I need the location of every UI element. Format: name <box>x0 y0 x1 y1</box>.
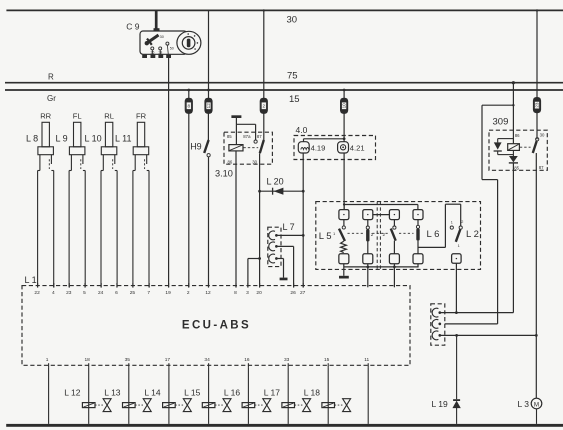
relay 309 coil <box>508 144 520 151</box>
valve L14 solenoid <box>144 367 191 424</box>
svg-text:87a: 87a <box>243 134 251 139</box>
relay 309 switch arm <box>533 141 537 153</box>
relay 309 (dashed box) <box>489 130 547 170</box>
svg-text:22: 22 <box>34 290 40 296</box>
svg-text:25: 25 <box>130 290 136 296</box>
diode L20 <box>258 176 304 194</box>
sensor L11 wheel speed (FR) <box>115 111 149 287</box>
connector L7 contact 2 <box>269 242 275 251</box>
mech link 309 <box>520 146 531 148</box>
wire connector pin3 to motor feed <box>439 334 536 336</box>
relay 309 switch contact <box>536 138 539 141</box>
svg-text:4.0: 4.0 <box>296 125 308 135</box>
svg-text:87: 87 <box>257 134 262 139</box>
wire L7 pin1 to lamp/diode net <box>276 234 303 236</box>
svg-text:17: 17 <box>165 357 171 363</box>
svg-text:M: M <box>534 401 539 408</box>
valve L17 solenoid <box>264 367 311 424</box>
L6 top terminal <box>413 210 423 220</box>
fuse 10 (feeds lamps 4.19/4.21) <box>343 90 345 98</box>
svg-text:30: 30 <box>540 133 545 138</box>
svg-text:34: 34 <box>204 357 210 363</box>
svg-text:10: 10 <box>342 103 347 109</box>
svg-text:86: 86 <box>228 159 233 164</box>
svg-text:20: 20 <box>256 290 262 296</box>
wire between terminals 2 and 3 <box>373 214 390 216</box>
svg-text:H9: H9 <box>190 142 202 152</box>
wire lamp 4.19 to ECU pin 27 / L7 <box>302 153 304 287</box>
connector L7 contact 1 <box>269 231 275 240</box>
switch H9 brake light switch <box>190 113 210 156</box>
svg-text:L 5: L 5 <box>319 231 332 242</box>
svg-text:L 11: L 11 <box>115 133 132 143</box>
wire switch 3 to ECU pin 10 <box>393 264 395 288</box>
svg-text:26: 26 <box>290 290 296 296</box>
sensor L8 wheel speed (RR) <box>26 111 54 287</box>
svg-text:1: 1 <box>333 231 336 236</box>
connector L7 contact 3 <box>269 254 275 263</box>
switch C9 ignition <box>126 10 201 58</box>
L5 top terminal <box>339 210 349 220</box>
svg-text:4.21: 4.21 <box>350 144 365 153</box>
sensor L10 wheel speed (RL) <box>85 111 118 287</box>
svg-text:33: 33 <box>284 357 290 363</box>
ground (L7) <box>280 278 288 281</box>
wire relay 3.10 term 30 to ECU pin 20 <box>259 153 261 287</box>
relay 309 series diode <box>509 150 518 163</box>
hydraulic unit partition dashed lines <box>376 202 378 270</box>
svg-text:15: 15 <box>324 357 330 363</box>
svg-text:RL: RL <box>104 111 114 120</box>
svg-text:75: 75 <box>287 71 298 82</box>
svg-text:30: 30 <box>287 15 298 26</box>
svg-text:86: 86 <box>515 133 520 138</box>
svg-text:FR: FR <box>136 111 147 120</box>
svg-text:11: 11 <box>364 357 369 363</box>
svg-text:2: 2 <box>382 232 385 237</box>
valve L16 solenoid <box>224 367 271 424</box>
svg-text:50: 50 <box>170 46 174 50</box>
diode L19 <box>432 335 461 424</box>
wire fuse 2 to relay 3.10 arm <box>263 113 265 140</box>
switch L2 pressure switch <box>450 220 479 263</box>
svg-text:L 1: L 1 <box>25 275 37 285</box>
motor L3 pump <box>518 398 542 424</box>
svg-text:L 17: L 17 <box>264 387 281 397</box>
solenoid coil L6 <box>413 220 439 264</box>
svg-text:16: 16 <box>244 357 250 363</box>
svg-text:L 2: L 2 <box>466 229 479 240</box>
svg-text:C 9: C 9 <box>126 21 140 31</box>
wire ECU pin 11 to ground bus <box>367 367 369 424</box>
svg-text:L 6: L 6 <box>427 229 440 240</box>
svg-text:4.19: 4.19 <box>311 144 326 153</box>
wire feed into hydraulic unit <box>343 205 345 210</box>
svg-text:7: 7 <box>147 290 150 296</box>
connector 3-pin (dashed box) <box>431 304 445 345</box>
wire lamp feeds <box>343 113 345 141</box>
svg-text:12: 12 <box>205 290 211 296</box>
svg-text:1: 1 <box>451 220 453 224</box>
connector contact 2 <box>432 320 438 329</box>
svg-text:87: 87 <box>539 165 544 170</box>
svg-text:1: 1 <box>46 357 49 363</box>
svg-text:2: 2 <box>263 104 266 109</box>
wire L6 bottom to switch L2 contact 2 <box>418 246 445 248</box>
wire connector pin1 to relay 309 term 85 / L2 <box>439 312 513 314</box>
wire tap to relay 3.10 coil (85) <box>235 118 237 145</box>
wire lamp 4.21 down to solenoid box <box>343 153 345 209</box>
svg-text:L 18: L 18 <box>304 387 321 397</box>
fuse 23 (feeds relay 309 term 30) <box>536 10 538 97</box>
svg-text:6: 6 <box>115 290 118 296</box>
svg-text:L 13: L 13 <box>104 387 121 397</box>
svg-text:Gr: Gr <box>47 94 56 103</box>
wire relay 309 term 85 down <box>512 163 514 313</box>
relay 309 suppression diode <box>494 139 514 155</box>
svg-text:ECU-ABS: ECU-ABS <box>182 319 251 331</box>
svg-text:L 19: L 19 <box>432 399 449 409</box>
fuse 8 (feeds ECU pin 2) <box>188 90 190 98</box>
svg-text:2: 2 <box>187 290 190 296</box>
connector contact 1 <box>432 308 438 317</box>
wire tap branch to contact 87a <box>236 123 255 125</box>
ECU bottom pin ticks and numbers <box>46 357 370 367</box>
wire H9 to ECU pin 12 <box>208 157 210 287</box>
wire L7 pin3 to ground <box>276 258 284 260</box>
svg-text:27: 27 <box>300 290 306 296</box>
svg-text:L 12: L 12 <box>64 387 81 397</box>
wire bus 75 (R) <box>5 82 563 84</box>
svg-text:2: 2 <box>461 220 463 224</box>
hydraulic unit dashed box (L5/L6/L2) <box>316 202 481 270</box>
valve L15 solenoid <box>184 367 231 424</box>
svg-text:15: 15 <box>289 94 300 105</box>
svg-text:3: 3 <box>246 290 249 296</box>
svg-text:309: 309 <box>493 117 509 128</box>
svg-text:85: 85 <box>227 134 232 139</box>
svg-text:FL: FL <box>73 111 82 120</box>
svg-text:2: 2 <box>371 232 374 237</box>
svg-text:4: 4 <box>52 290 55 296</box>
svg-text:85: 85 <box>514 166 519 171</box>
lamp 4.21 <box>338 142 365 153</box>
lamp 4.19 ABS warning <box>298 142 325 153</box>
svg-text:L 16: L 16 <box>224 387 241 397</box>
valve L12 solenoid <box>64 367 111 424</box>
svg-text:R: R <box>48 73 54 82</box>
ECU top pin ticks and numbers <box>34 283 305 296</box>
sensor L9 wheel speed (FL) <box>56 111 86 287</box>
connector L7 (dashed box) <box>268 227 281 266</box>
connector contact 3 <box>432 331 438 340</box>
node supply tap (bar) above relay 3.10 <box>231 115 241 118</box>
svg-text:30: 30 <box>252 159 257 164</box>
wire 75-net branch to connector pin 2 <box>512 104 514 106</box>
wire L7 pin2 to ECU pin 26 <box>276 245 294 247</box>
wire C9 terminal to ECU pin 19 <box>168 58 170 287</box>
svg-text:L 15: L 15 <box>184 387 201 397</box>
svg-text:18: 18 <box>85 357 91 363</box>
svg-text:L 20: L 20 <box>267 176 284 186</box>
relay 3.10 coil <box>229 145 243 151</box>
svg-text:5: 5 <box>83 290 86 296</box>
switch (2) <box>382 220 399 264</box>
wire ECU pin 1 to ground bus <box>48 367 50 424</box>
svg-text:L 7: L 7 <box>283 222 295 232</box>
svg-text:30: 30 <box>160 35 164 39</box>
svg-text:3.10: 3.10 <box>215 169 233 179</box>
ground bus (term 31) <box>6 424 563 427</box>
lamp unit 4.0 (dashed box) <box>294 136 376 160</box>
svg-text:24: 24 <box>98 290 104 296</box>
svg-text:L 9: L 9 <box>56 133 68 143</box>
svg-text:12: 12 <box>206 103 211 109</box>
svg-text:L 3: L 3 <box>518 399 530 409</box>
switch L5 with resistor <box>319 220 349 264</box>
wire bus 15 (Gr) <box>5 89 563 91</box>
fuse 2 (feeds relay 3.10 term 87) <box>263 10 265 98</box>
wire relay 3.10 term 86 to ECU pin 8 <box>235 151 237 287</box>
mech link coil to arm <box>243 147 258 149</box>
switch 2 top terminal <box>389 210 399 220</box>
ground (hydraulic unit) <box>339 276 349 279</box>
valve L13 solenoid <box>104 367 151 424</box>
relay 3.10 contact 87a <box>254 140 257 143</box>
svg-text:35: 35 <box>125 357 131 363</box>
wire L2 down to connector feed line <box>455 263 457 312</box>
svg-text:RR: RR <box>40 111 51 120</box>
wire coil 2 to ECU pin 9 <box>367 264 369 288</box>
svg-text:L 14: L 14 <box>144 387 161 397</box>
pressure warning switch top terminal <box>363 210 373 220</box>
wire relay 309 term 87 to pump motor L3 <box>535 153 537 398</box>
mech link dashes L5..L6 <box>348 232 364 234</box>
svg-text:L 8: L 8 <box>26 133 38 143</box>
wire bus 75 tap to relay 309 term 86 <box>512 81 515 84</box>
svg-text:19: 19 <box>165 290 171 296</box>
solenoid coil (2) <box>363 220 374 264</box>
wire bottom common bus inside hydraulic unit <box>344 266 419 268</box>
svg-text:L 10: L 10 <box>85 133 102 143</box>
svg-text:8: 8 <box>234 290 237 296</box>
wire fuse 8 to ECU pin 2 <box>188 113 190 287</box>
svg-text:8: 8 <box>188 104 191 109</box>
wire fuse 23 to relay 309 term 30 <box>536 113 538 140</box>
svg-text:1: 1 <box>458 244 460 248</box>
wire bus 30 <box>6 9 563 11</box>
wire branch to ECU pin 3 <box>248 258 260 260</box>
relay 3.10 switch arm <box>260 140 264 153</box>
svg-text:23: 23 <box>535 102 540 108</box>
fuse 12 (H9 branch) <box>208 10 210 98</box>
valve L18 solenoid <box>304 367 351 424</box>
svg-text:23: 23 <box>66 290 72 296</box>
ECU L1 (dashed box) <box>22 286 410 366</box>
relay 3.10 (dashed box) <box>224 132 272 164</box>
